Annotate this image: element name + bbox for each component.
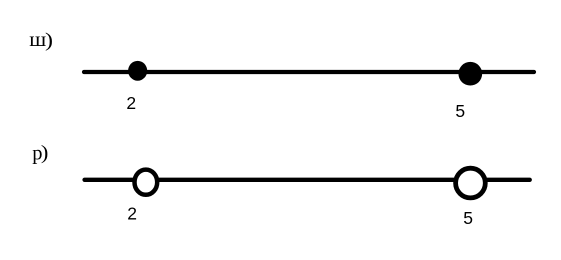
svg-text:): ): [41, 141, 49, 163]
svg-text:ш: ш: [29, 28, 46, 51]
svg-text:5: 5: [455, 101, 465, 121]
svg-text:5: 5: [463, 208, 473, 228]
svg-text:2: 2: [127, 203, 137, 223]
svg-text:): ): [45, 28, 53, 51]
svg-text:2: 2: [126, 93, 136, 113]
